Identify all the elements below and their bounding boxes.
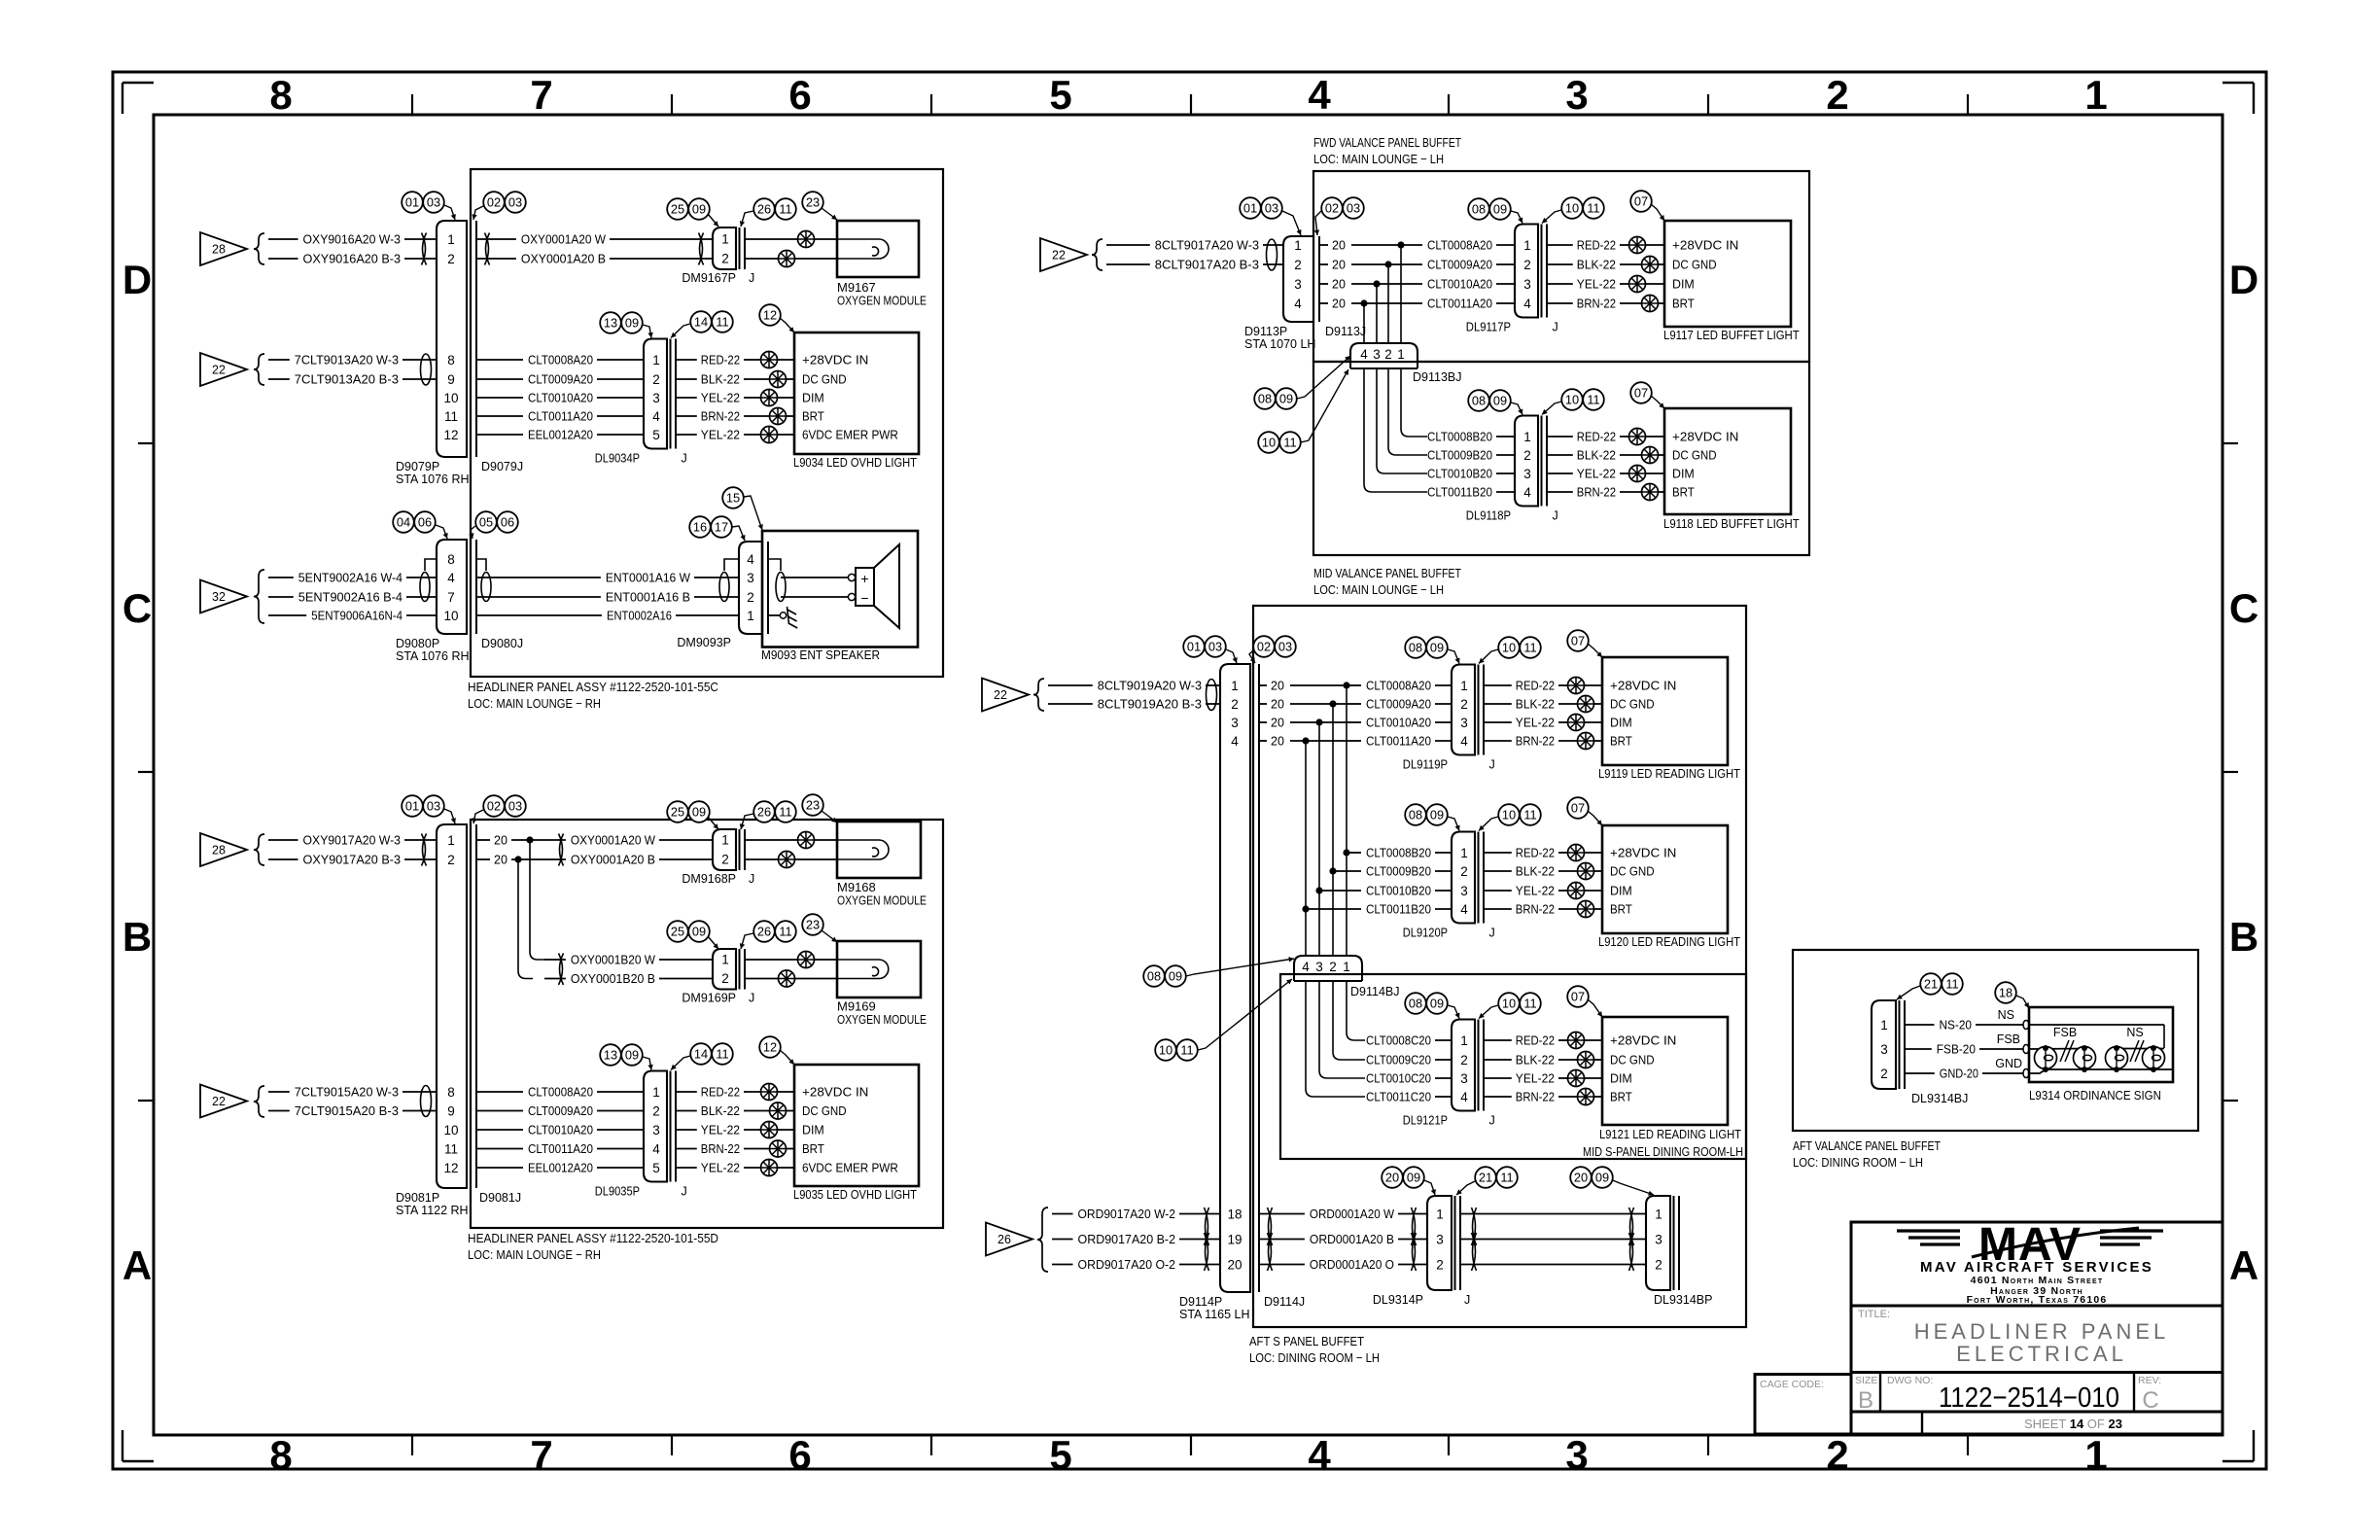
wire OXY0001B20 B bbox=[544, 971, 713, 986]
wire 8CLT9019A20 B-3 bbox=[1048, 697, 1220, 712]
svg-text:1: 1 bbox=[1460, 1033, 1468, 1048]
balloon pair 21 11 (DL9314P) bbox=[1475, 1167, 1518, 1188]
svg-text:3: 3 bbox=[1565, 1432, 1588, 1478]
drop wire dining B col3 bbox=[1318, 891, 1320, 956]
svg-text:Fort Worth, Texas 76106: Fort Worth, Texas 76106 bbox=[1967, 1294, 2108, 1306]
connector D9113P pin numbers bbox=[1294, 238, 1302, 311]
svg-text:STA 1070 LH: STA 1070 LH bbox=[1244, 337, 1315, 351]
leader from balloon to box L9121 bbox=[1588, 999, 1602, 1017]
wire CLT0010A20 bbox=[476, 391, 644, 405]
wire BLK-22 bbox=[1484, 697, 1577, 712]
source triangle 28 bbox=[200, 232, 247, 265]
zone boundary ticks top and bottom bbox=[412, 94, 1968, 1455]
junction dot FWD row4 bbox=[1360, 299, 1367, 306]
balloon L9035 box ref bbox=[759, 1036, 781, 1058]
wire 20 segment dining row2 bbox=[1259, 698, 1347, 712]
balloon pair 04 06 bbox=[393, 511, 436, 533]
lamp on BRN-22 bbox=[1642, 484, 1665, 501]
wire CLT0011A20 bbox=[476, 409, 644, 424]
box L9118 terminal labels bbox=[1672, 430, 1738, 500]
label address line 3 bbox=[1967, 1294, 2108, 1306]
drop wire dining C col2 with elbow bbox=[1333, 981, 1365, 1060]
label DL9120P bbox=[1403, 927, 1448, 940]
wire 5ENT9006A16N-4 bbox=[268, 609, 437, 623]
svg-text:BLK-22: BLK-22 bbox=[1516, 864, 1555, 879]
connector DL9120P J strip bbox=[1479, 832, 1485, 924]
svg-text:ENT0001A16 B: ENT0001A16 B bbox=[606, 590, 690, 605]
label J of DL9117P bbox=[1553, 321, 1558, 334]
wire pin2 20 segment bbox=[476, 854, 544, 867]
label address line 1 bbox=[1971, 1275, 2104, 1286]
leader 25 09 to DM9169P bbox=[708, 936, 718, 949]
svg-text:7CLT9013A20 W-3: 7CLT9013A20 W-3 bbox=[295, 353, 399, 367]
svg-text:15: 15 bbox=[726, 491, 740, 506]
connector DL9314P J strip bbox=[1455, 1196, 1461, 1290]
twist symbol mid-run triple bbox=[1472, 1207, 1477, 1271]
label AFT S PANEL BUFFET bbox=[1249, 1334, 1364, 1348]
drop wire dining C col1 with elbow bbox=[1347, 981, 1365, 1040]
wire BRN-22 bbox=[1547, 485, 1641, 500]
svg-text:23: 23 bbox=[806, 918, 820, 932]
connector D9113BJ strip bbox=[1350, 362, 1417, 368]
label LOC MAIN LOUNGE LH (MID) bbox=[1313, 582, 1444, 597]
lamp on oxygen wire 1 bbox=[798, 231, 838, 248]
wire OXY0001A20 W (55D) bbox=[544, 833, 713, 848]
junction dot dining row1 bbox=[1343, 682, 1349, 688]
svg-text:EEL0012A20: EEL0012A20 bbox=[528, 1161, 593, 1175]
svg-text:YEL-22: YEL-22 bbox=[701, 1161, 740, 1175]
svg-text:1122−2514−010: 1122−2514−010 bbox=[1939, 1382, 2119, 1414]
svg-text:10: 10 bbox=[443, 609, 458, 623]
label D9113J bbox=[1325, 325, 1366, 338]
leader from balloon to box L9118 bbox=[1651, 396, 1664, 408]
svg-text:DL9314P: DL9314P bbox=[1373, 1293, 1423, 1307]
wire 20 segment FWD row3 bbox=[1319, 278, 1401, 292]
svg-text:8: 8 bbox=[447, 552, 455, 567]
connector D9080P body bbox=[437, 540, 467, 634]
connector DL9121P pin numbers bbox=[1460, 1033, 1468, 1104]
svg-text:14: 14 bbox=[694, 1047, 708, 1062]
lamp on RED-22 bbox=[761, 1084, 795, 1101]
box L9117 bbox=[1664, 221, 1791, 327]
svg-text:+28VDC IN: +28VDC IN bbox=[1610, 679, 1676, 693]
shield oval 8CLT9017 pair bbox=[1267, 239, 1277, 270]
label DL9119P bbox=[1403, 758, 1448, 772]
wire ORD0001A20 W bbox=[1259, 1207, 1427, 1221]
wire to speaker - terminal bbox=[781, 596, 848, 598]
svg-text:J: J bbox=[749, 872, 754, 886]
size cell divider bbox=[1879, 1373, 1881, 1413]
svg-text:RED-22: RED-22 bbox=[1577, 430, 1616, 444]
shield oval ENT0001 pair left bbox=[481, 573, 491, 602]
connector D9114P J strip line bbox=[1258, 664, 1260, 1292]
chassis ground symbol bbox=[780, 607, 797, 628]
svg-text:3: 3 bbox=[1460, 1071, 1468, 1086]
label AFT VALANCE PANEL BUFFET bbox=[1793, 1138, 1941, 1153]
svg-text:STA 1122 RH: STA 1122 RH bbox=[396, 1204, 469, 1217]
svg-text:5: 5 bbox=[1049, 1432, 1071, 1478]
connector DL9034P pin numbers bbox=[652, 353, 660, 442]
svg-text:5ENT9002A16 W-4: 5ENT9002A16 W-4 bbox=[298, 571, 402, 585]
svg-text:DC GND: DC GND bbox=[1610, 697, 1655, 712]
svg-text:1: 1 bbox=[2084, 1432, 2107, 1478]
svg-text:01: 01 bbox=[1187, 640, 1201, 654]
svg-text:LOC: DINING ROOM − LH: LOC: DINING ROOM − LH bbox=[1249, 1350, 1380, 1365]
box L9035 bbox=[794, 1065, 919, 1186]
junction dot dining row4 bbox=[1302, 737, 1309, 744]
wire ENT0001A16 W bbox=[476, 571, 739, 585]
leader 01 03 to D9081P bbox=[444, 809, 456, 823]
balloon L9034 box ref bbox=[759, 304, 781, 326]
wire YEL-22 bbox=[1547, 277, 1628, 292]
leader from balloon to DL9118P bbox=[1511, 402, 1522, 415]
svg-text:09: 09 bbox=[1493, 202, 1507, 217]
svg-text:4: 4 bbox=[1460, 1090, 1468, 1104]
svg-text:8CLT9017A20 W-3: 8CLT9017A20 W-3 bbox=[1155, 238, 1259, 253]
connector DM9093P pin numbers bbox=[747, 552, 754, 623]
sign input pin NS bbox=[2023, 1021, 2029, 1030]
wire YEL-22 bbox=[676, 1123, 760, 1137]
connector DL9314BJ body bbox=[1872, 1000, 1896, 1089]
svg-text:6VDC EMER PWR: 6VDC EMER PWR bbox=[802, 428, 898, 442]
wire RED-22 bbox=[676, 1085, 760, 1100]
svg-text:11: 11 bbox=[1587, 201, 1599, 216]
leader from balloon to DL9035P bbox=[643, 1057, 653, 1070]
net label GND bbox=[1995, 1057, 2022, 1070]
lamp on BLK-22 bbox=[1642, 447, 1665, 464]
svg-text:D9114P: D9114P bbox=[1179, 1295, 1222, 1309]
label DL9121P bbox=[1403, 1114, 1448, 1128]
brace for triangle 32 bbox=[254, 570, 264, 623]
leader 23 to M9169 bbox=[822, 930, 837, 942]
label M9169 bbox=[837, 999, 876, 1014]
svg-text:J: J bbox=[1489, 927, 1495, 940]
svg-text:RED-22: RED-22 bbox=[1516, 1033, 1555, 1048]
svg-text:+28VDC IN: +28VDC IN bbox=[802, 353, 868, 367]
svg-text:3: 3 bbox=[652, 1123, 660, 1137]
wire BRN-22 bbox=[676, 409, 769, 424]
svg-text:16: 16 bbox=[693, 520, 707, 535]
label DL9035P bbox=[595, 1185, 640, 1199]
svg-text:OXY9016A20 W-3: OXY9016A20 W-3 bbox=[303, 232, 402, 247]
svg-text:08: 08 bbox=[1409, 997, 1422, 1011]
svg-text:4: 4 bbox=[1308, 72, 1331, 118]
svg-text:OXY0001A20 B: OXY0001A20 B bbox=[521, 252, 606, 266]
svg-text:09: 09 bbox=[625, 1048, 639, 1063]
balloon pair 01 03 bbox=[402, 192, 444, 213]
balloon L9120 box ref bbox=[1567, 797, 1589, 819]
svg-text:STA 1076 RH: STA 1076 RH bbox=[396, 472, 470, 486]
connector D9079P body bbox=[437, 221, 467, 457]
wire DM9169P to lamp row2 bbox=[745, 978, 779, 980]
svg-text:+28VDC IN: +28VDC IN bbox=[1672, 430, 1738, 444]
wire NS-20 bbox=[1905, 1018, 2023, 1032]
label STA 1070 LH bbox=[1244, 337, 1315, 351]
svg-text:26: 26 bbox=[997, 1233, 1011, 1246]
svg-text:1: 1 bbox=[652, 1085, 660, 1100]
label address line 2 bbox=[1990, 1285, 2083, 1297]
svg-text:6: 6 bbox=[788, 1432, 811, 1478]
svg-text:02: 02 bbox=[487, 799, 501, 814]
balloon pair 25 09 bbox=[667, 198, 710, 220]
lamp on YEL-22 bbox=[761, 1160, 795, 1176]
svg-text:12: 12 bbox=[443, 428, 458, 442]
svg-text:DM9168P: DM9168P bbox=[682, 872, 736, 886]
balloon pair 01 03 (dining) bbox=[1183, 636, 1226, 657]
label DL9118P bbox=[1466, 509, 1511, 523]
svg-text:BRN-22: BRN-22 bbox=[701, 409, 740, 424]
wire 8CLT9017A20 W-3 bbox=[1106, 238, 1283, 253]
svg-text:2: 2 bbox=[747, 590, 754, 605]
source triangle 22 (7CLT9013) bbox=[200, 353, 247, 386]
svg-text:11: 11 bbox=[1283, 436, 1296, 450]
svg-text:7CLT9013A20 B-3: 7CLT9013A20 B-3 bbox=[295, 372, 399, 387]
zone letters right bbox=[2229, 257, 2258, 1288]
wire 20 segment dining row1 bbox=[1259, 680, 1347, 693]
lamp on YEL-22 bbox=[1629, 466, 1665, 482]
svg-text:CLT0008B20: CLT0008B20 bbox=[1427, 430, 1492, 444]
svg-text:DIM: DIM bbox=[1672, 277, 1695, 292]
svg-text:OXY9017A20 W-3: OXY9017A20 W-3 bbox=[303, 833, 402, 848]
leader 08 09 to D9113BJ bbox=[1297, 356, 1350, 399]
svg-text:NS: NS bbox=[1998, 1008, 2014, 1022]
lamp on BLK-22 bbox=[1578, 863, 1603, 880]
svg-text:3: 3 bbox=[652, 391, 660, 405]
crossed wires mark NS pair bbox=[2130, 1040, 2144, 1062]
label L9314 ORDINANCE SIGN bbox=[2029, 1088, 2161, 1102]
svg-text:DC GND: DC GND bbox=[1672, 258, 1717, 272]
connector DM9169P body bbox=[713, 949, 736, 990]
label J of DM9169P bbox=[749, 992, 754, 1005]
leader from balloon to DL9117P bbox=[1511, 211, 1522, 224]
svg-text:25: 25 bbox=[671, 202, 684, 217]
balloon pair 01 03 (55D) bbox=[402, 795, 444, 817]
svg-text:OXY9016A20 B-3: OXY9016A20 B-3 bbox=[303, 252, 402, 266]
svg-text:1: 1 bbox=[1397, 347, 1405, 362]
lamp on RED-22 bbox=[761, 352, 795, 368]
corner bracket top-left bbox=[122, 83, 154, 114]
svg-text:L9314 ORDINANCE SIGN: L9314 ORDINANCE SIGN bbox=[2029, 1088, 2161, 1102]
svg-text:07: 07 bbox=[1634, 386, 1648, 401]
svg-text:5ENT9006A16N-4: 5ENT9006A16N-4 bbox=[311, 609, 402, 623]
balloon pair 20 09 (DL9314P) bbox=[1382, 1167, 1424, 1188]
svg-text:10: 10 bbox=[1159, 1043, 1172, 1058]
label D9113BJ bbox=[1413, 370, 1462, 384]
wire BLK-22 bbox=[1547, 448, 1641, 463]
svg-text:OXY0001B20 B: OXY0001B20 B bbox=[571, 971, 655, 986]
wire YEL-22 bbox=[676, 1161, 760, 1175]
svg-text:10: 10 bbox=[1565, 393, 1579, 407]
lamp on BRN-22 bbox=[1578, 733, 1603, 750]
svg-text:3: 3 bbox=[1373, 347, 1381, 362]
svg-text:J: J bbox=[1489, 1114, 1495, 1128]
connector DM9093P body bbox=[739, 542, 762, 634]
connector DL9117P body bbox=[1515, 225, 1538, 318]
balloon L9117 box ref bbox=[1630, 191, 1652, 212]
svg-text:C: C bbox=[2229, 585, 2258, 631]
leader 18 to ordinance sign bbox=[2016, 996, 2029, 1008]
svg-text:ORD0001A20 O: ORD0001A20 O bbox=[1310, 1257, 1394, 1272]
aft valance box outline bbox=[1793, 950, 2198, 1131]
wire OXY9017A20 W-3 bbox=[268, 833, 437, 848]
svg-text:12: 12 bbox=[443, 1161, 458, 1175]
svg-text:1: 1 bbox=[1436, 1207, 1444, 1221]
junction dot dining B row1 bbox=[1343, 849, 1349, 856]
svg-text:HEADLINER PANEL: HEADLINER PANEL bbox=[1914, 1319, 2170, 1344]
lamp on BRN-22 bbox=[1578, 1089, 1603, 1105]
svg-text:1: 1 bbox=[2084, 72, 2107, 118]
svg-text:YEL-22: YEL-22 bbox=[1516, 1071, 1555, 1086]
connector DM9169P pin numbers bbox=[721, 953, 729, 987]
svg-text:9: 9 bbox=[447, 1103, 455, 1118]
svg-text:14: 14 bbox=[694, 315, 708, 330]
twist symbol OXY0001B pair bbox=[559, 954, 564, 986]
svg-text:DC GND: DC GND bbox=[802, 1103, 847, 1118]
junction dot row2 (55D) bbox=[514, 856, 521, 862]
svg-text:02: 02 bbox=[1325, 201, 1339, 216]
svg-text:2: 2 bbox=[1329, 960, 1337, 974]
svg-text:04: 04 bbox=[397, 515, 410, 530]
svg-text:ORD0001A20 W: ORD0001A20 W bbox=[1310, 1207, 1395, 1221]
wire 7CLT9015A20 W-3 bbox=[268, 1085, 437, 1100]
connector DM9168P J strip bbox=[740, 829, 746, 870]
label DWG NO: bbox=[1887, 1375, 1933, 1386]
leader 01 03 to D9079P bbox=[444, 205, 456, 220]
label J of DL9314P bbox=[1464, 1293, 1470, 1307]
label MID S-PANEL DINING ROOM-LH bbox=[1583, 1144, 1743, 1159]
label J of DL9121P bbox=[1489, 1114, 1495, 1128]
svg-text:OXY0001A20 W: OXY0001A20 W bbox=[521, 232, 607, 247]
svg-text:26: 26 bbox=[757, 202, 771, 217]
wire 20 segment FWD row4 bbox=[1319, 297, 1401, 311]
svg-text:11: 11 bbox=[1180, 1043, 1193, 1058]
source triangle 32 bbox=[200, 580, 247, 613]
svg-text:07: 07 bbox=[1571, 990, 1585, 1004]
svg-text:08: 08 bbox=[1472, 202, 1486, 217]
svg-text:REV:: REV: bbox=[2138, 1375, 2161, 1386]
label M9168 bbox=[837, 880, 876, 894]
wire CLT0009A20 (FWD) bbox=[1401, 258, 1515, 272]
label SIZE bbox=[1855, 1375, 1877, 1386]
wire RED-22 bbox=[1484, 846, 1567, 860]
leader from balloon to DL9034P J bbox=[671, 324, 690, 338]
svg-text:RED-22: RED-22 bbox=[1577, 238, 1616, 253]
heater curl inside M9169 bbox=[837, 960, 889, 979]
label L9119 LED READING LIGHT bbox=[1598, 766, 1740, 781]
svg-text:BRN-22: BRN-22 bbox=[1577, 297, 1616, 311]
wire CLT0010B20 bbox=[1427, 467, 1515, 481]
svg-text:2: 2 bbox=[721, 853, 729, 867]
wire 20 segment FWD row1 bbox=[1319, 239, 1401, 253]
svg-text:08: 08 bbox=[1409, 641, 1422, 655]
svg-text:CLT0009B20: CLT0009B20 bbox=[1366, 864, 1431, 879]
svg-text:RED-22: RED-22 bbox=[1516, 846, 1555, 860]
balloon 23 bbox=[802, 192, 823, 213]
wire 5ENT9002A16 B-4 bbox=[268, 590, 437, 605]
wire CLT0008A20 (55D) bbox=[476, 1085, 644, 1100]
wire OXY0001A20 B bbox=[476, 252, 713, 266]
wire CLT0011A20 (FWD) bbox=[1401, 297, 1515, 311]
svg-text:YEL-22: YEL-22 bbox=[1577, 467, 1616, 481]
svg-text:DIM: DIM bbox=[802, 391, 824, 405]
svg-text:1: 1 bbox=[447, 833, 455, 848]
leader 16 17 to DM9093P bbox=[732, 526, 746, 541]
label J of DL9118P bbox=[1553, 509, 1558, 523]
svg-text:YEL-22: YEL-22 bbox=[701, 391, 740, 405]
box L9119 bbox=[1602, 657, 1728, 765]
svg-text:NS-20: NS-20 bbox=[1940, 1018, 1973, 1032]
svg-text:09: 09 bbox=[1279, 392, 1293, 406]
svg-text:3: 3 bbox=[1523, 467, 1531, 481]
wire CLT0011B20 bbox=[1306, 902, 1452, 917]
svg-text:CAGE CODE:: CAGE CODE: bbox=[1760, 1379, 1824, 1390]
wire 5ENT9002A16 W-4 bbox=[268, 571, 437, 585]
svg-text:D9079P: D9079P bbox=[396, 460, 439, 473]
connector D9113BJ pin numbers bbox=[1360, 347, 1405, 362]
connector DL9119P J strip bbox=[1479, 665, 1485, 755]
drop wire FWD col1 bbox=[1400, 245, 1402, 343]
lamp on BRN-22 bbox=[1642, 296, 1665, 312]
svg-text:2: 2 bbox=[1523, 258, 1531, 272]
wire YEL-22 bbox=[676, 391, 760, 405]
svg-text:6VDC EMER PWR: 6VDC EMER PWR bbox=[802, 1161, 898, 1175]
wire 20 segment dining row3 bbox=[1259, 717, 1347, 730]
drop wire dining B col2 bbox=[1332, 871, 1334, 956]
wire CLT0008A20 (FWD) bbox=[1401, 238, 1515, 253]
svg-text:DM9167P: DM9167P bbox=[682, 271, 736, 285]
svg-text:CLT0010A20: CLT0010A20 bbox=[1366, 716, 1431, 730]
wire CLT0009A20 (dining) bbox=[1347, 697, 1452, 712]
svg-text:08: 08 bbox=[1258, 392, 1272, 406]
svg-text:ORD9017A20 W-2: ORD9017A20 W-2 bbox=[1078, 1207, 1176, 1221]
lamp on YEL-22 bbox=[1568, 1070, 1603, 1087]
leader 15 to speaker box bbox=[744, 496, 763, 530]
svg-text:4: 4 bbox=[747, 552, 754, 567]
svg-text:4: 4 bbox=[1360, 347, 1368, 362]
leader 04 06 to D9080P bbox=[436, 525, 448, 539]
svg-text:2: 2 bbox=[1460, 864, 1468, 879]
sign lamp 2 top dot bbox=[2082, 1045, 2087, 1051]
speaker terminal circles bbox=[848, 574, 855, 600]
svg-text:CLT0008B20: CLT0008B20 bbox=[1366, 846, 1431, 860]
leader from balloon to box L9119 bbox=[1588, 644, 1602, 657]
connector DM9093P J strip bbox=[767, 542, 769, 634]
svg-text:LOC: MAIN LOUNGE − LH: LOC: MAIN LOUNGE − LH bbox=[1313, 152, 1444, 166]
connector DL9119P pin numbers bbox=[1460, 679, 1468, 749]
balloon pair 26 11 (M9169) bbox=[753, 921, 796, 942]
svg-text:03: 03 bbox=[508, 799, 522, 814]
svg-text:11: 11 bbox=[1523, 808, 1536, 822]
svg-text:03: 03 bbox=[508, 195, 522, 210]
svg-text:03: 03 bbox=[1208, 640, 1222, 654]
wire CLT0008B20 bbox=[1427, 430, 1515, 444]
svg-text:L9119 LED READING LIGHT: L9119 LED READING LIGHT bbox=[1598, 766, 1740, 781]
svg-text:DIM: DIM bbox=[1610, 716, 1632, 730]
svg-text:12: 12 bbox=[763, 1040, 777, 1055]
connector DL9034P body bbox=[644, 339, 667, 449]
lamp on YEL-22 bbox=[1568, 883, 1603, 899]
svg-text:BRT: BRT bbox=[1672, 485, 1695, 500]
svg-text:1: 1 bbox=[1294, 238, 1302, 253]
svg-text:09: 09 bbox=[692, 202, 706, 217]
wire DM9168P to lamp row1 bbox=[745, 839, 798, 841]
svg-text:J: J bbox=[1553, 509, 1558, 523]
svg-text:7: 7 bbox=[447, 590, 455, 605]
speaker cone bbox=[874, 544, 899, 628]
svg-text:SHEET 14 OF 23: SHEET 14 OF 23 bbox=[2024, 1417, 2122, 1431]
balloon pair 02 03 bbox=[483, 192, 526, 213]
svg-text:32: 32 bbox=[212, 590, 226, 604]
